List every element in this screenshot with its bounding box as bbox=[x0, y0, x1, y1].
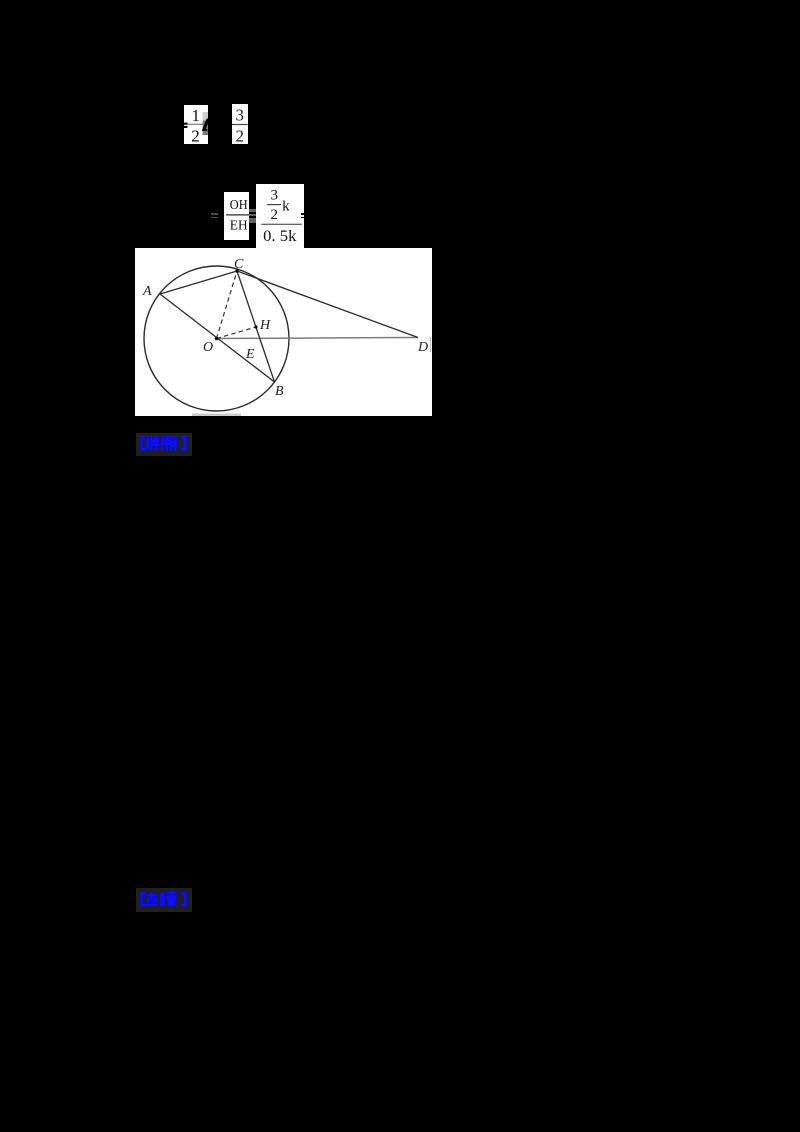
fraction bar bbox=[232, 124, 248, 125]
line A-B bbox=[160, 294, 275, 382]
formula image: (3/2 k)/(0.5k) bbox=[256, 184, 304, 248]
geometry figure bbox=[135, 248, 432, 417]
black wedge artifact bbox=[201, 117, 208, 130]
char 点 bbox=[150, 892, 152, 898]
dot C bbox=[235, 269, 239, 273]
formula image: fraction 1/2 bbox=[184, 105, 209, 145]
chord A-C bbox=[160, 271, 237, 294]
svg-text:2: 2 bbox=[191, 126, 200, 144]
svg-text:2: 2 bbox=[235, 126, 244, 143]
svg-text:OH: OH bbox=[229, 197, 247, 212]
svg-text:3: 3 bbox=[235, 105, 244, 124]
bottom gray artifact bar bbox=[192, 413, 241, 416]
edge artifact line right of D bbox=[430, 337, 432, 352]
main fraction bar bbox=[261, 224, 301, 225]
bracket 】 bbox=[181, 436, 186, 450]
equals right of big fraction bbox=[301, 213, 305, 215]
svg-text:EH: EH bbox=[229, 217, 247, 232]
small fraction bar bbox=[267, 204, 281, 205]
blue label 1 (【详解】 drawn as shapes) bbox=[136, 433, 192, 456]
svg-text:3: 3 bbox=[271, 188, 279, 204]
equals on left edge bbox=[184, 122, 187, 124]
svg-text:B: B bbox=[275, 384, 284, 399]
formula image: OH/EH bbox=[224, 192, 250, 240]
dashed O-C bbox=[217, 271, 238, 339]
dot H bbox=[254, 325, 257, 328]
svg-text:2: 2 bbox=[271, 207, 279, 223]
bracket 】 bbox=[181, 892, 186, 906]
svg-text:D: D bbox=[417, 340, 428, 355]
svg-text:H: H bbox=[259, 318, 271, 333]
svg-text:A: A bbox=[142, 284, 152, 299]
dot O bbox=[215, 336, 219, 340]
formula image: fraction 3/2 bbox=[232, 104, 248, 144]
gray block + equals between OH/EH and big fraction bbox=[249, 209, 256, 224]
bracket 【 bbox=[141, 436, 146, 450]
fraction bar bbox=[187, 123, 203, 124]
svg-text:1: 1 bbox=[191, 105, 200, 124]
fraction bar bbox=[226, 214, 249, 215]
artifact light gray block bbox=[202, 112, 208, 121]
line C-D bbox=[237, 271, 418, 338]
dashed O-H bbox=[217, 327, 257, 339]
circle O bbox=[144, 266, 289, 411]
svg-text:C: C bbox=[234, 257, 244, 272]
bracket 【 bbox=[141, 892, 146, 906]
char 睛 bbox=[160, 892, 162, 905]
artifact gray block bbox=[202, 120, 208, 135]
svg-text:E: E bbox=[245, 347, 255, 362]
svg-text:k: k bbox=[282, 199, 290, 215]
char 详 bbox=[147, 437, 150, 449]
line O-D bbox=[217, 337, 419, 338]
line C-B bbox=[237, 271, 275, 382]
equals left of OH/EH (faint on black) bbox=[211, 213, 218, 215]
svg-text:0. 5k: 0. 5k bbox=[263, 228, 296, 245]
char 解 bbox=[161, 436, 163, 450]
blue label 2 (【点睛】 drawn as shapes) bbox=[136, 888, 192, 912]
svg-text:O: O bbox=[203, 340, 213, 355]
